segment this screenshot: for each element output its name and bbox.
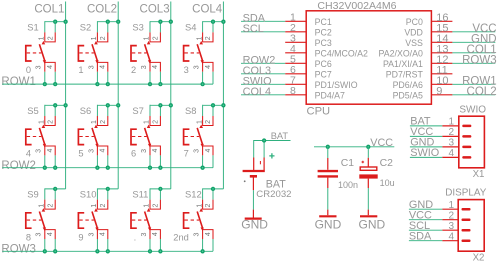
wire S6 top connection <box>97 104 118 106</box>
svg-text:GND: GND <box>241 218 268 232</box>
IC CPU CH32V002A4M6 <box>306 0 431 118</box>
switch S12 key "2nd" <box>173 187 223 254</box>
wire S9 to ROW3 <box>44 239 46 251</box>
connector X2 pin 2 VCC <box>442 210 470 221</box>
junction S2 pin 3 on ROW1 <box>95 82 99 86</box>
junction S4 pin 2 to COL4 <box>211 20 215 24</box>
junction S1 pin 4 on ROW1 <box>53 82 57 86</box>
CPU pin 3 PC3 <box>285 32 332 48</box>
svg-text:2: 2 <box>47 36 54 40</box>
svg-text:S1: S1 <box>27 22 38 33</box>
svg-text:DISPLAY: DISPLAY <box>445 187 486 198</box>
S1 pins 1,2 <box>45 32 55 42</box>
S6 contact arm <box>92 128 98 145</box>
wire S2 top connection <box>97 21 118 23</box>
svg-text:4: 4 <box>152 65 159 69</box>
S8 actuator button <box>184 129 190 144</box>
svg-text:1: 1 <box>39 36 46 40</box>
S1 actuator dashed link <box>27 52 42 54</box>
S9 actuator dashed link <box>27 219 42 221</box>
junction S1 pin 3 on ROW1 <box>43 82 47 86</box>
svg-text:ROW3: ROW3 <box>462 55 497 67</box>
connector X1 pin 1 BAT <box>442 117 471 128</box>
wire S7 to ROW2 <box>149 155 151 167</box>
CPU pin 8 PD4/A7 <box>285 85 345 101</box>
svg-text:PD6/A6: PD6/A6 <box>393 80 423 90</box>
capacitor C2 10u polarized <box>359 147 394 188</box>
junction S5 pin 4 on ROW2 <box>53 166 57 170</box>
junction COL1 column tap <box>63 20 67 24</box>
svg-text:CH32V002A4M6: CH32V002A4M6 <box>317 0 396 12</box>
S7 actuator dashed link <box>132 136 147 138</box>
S9 contact arm <box>39 212 45 229</box>
svg-text:3: 3 <box>141 149 148 153</box>
S2 actuator dashed link <box>79 52 94 54</box>
S10 contact arm <box>92 212 98 229</box>
S3 pins 3,4 <box>150 62 160 71</box>
wire net ROW1 from CPU pin 10 <box>452 76 496 88</box>
wire COL1 vertical <box>65 2 67 189</box>
svg-text:1: 1 <box>91 120 98 124</box>
junction S7 pin 3 on ROW2 <box>148 166 152 170</box>
connector X2 pin 3 SCL <box>442 221 470 232</box>
svg-text:2nd: 2nd <box>173 232 189 242</box>
wire S8 top connection <box>203 104 224 106</box>
S10 actuator button <box>78 213 84 228</box>
wire net COL3 to CPU pin 6 <box>241 65 285 77</box>
svg-text:4: 4 <box>152 149 159 153</box>
svg-text:S12: S12 <box>185 189 202 200</box>
junction S6 pin 4 on ROW2 <box>106 166 110 170</box>
svg-text:S7: S7 <box>132 105 143 116</box>
svg-text:4: 4 <box>205 65 212 69</box>
svg-text:PC1: PC1 <box>315 17 332 27</box>
junction S2 pin 2 to COL2 <box>106 20 110 24</box>
svg-text:6: 6 <box>131 149 136 159</box>
switch S5 key "4" <box>26 103 68 170</box>
svg-text:3: 3 <box>36 65 43 69</box>
svg-text:S8: S8 <box>185 105 196 116</box>
wire ROW2 horizontal <box>2 167 213 169</box>
CPU pin 5 PC6 <box>285 53 332 69</box>
S1 pins 3,4 <box>45 62 55 71</box>
wire net COL1 from CPU pin 13 <box>452 44 496 56</box>
svg-text:C2: C2 <box>380 158 394 169</box>
ground GND (C1) <box>315 210 342 232</box>
S6 actuator button <box>78 129 84 144</box>
junction COL4 column tap <box>221 20 225 24</box>
svg-text:2: 2 <box>153 120 160 124</box>
CPU pin 16 PC0 <box>406 12 453 27</box>
wire net SCL to X2 pin 3 <box>409 220 442 232</box>
switch S10 key "9" <box>78 187 118 254</box>
S12 actuator button <box>184 213 190 228</box>
switch S2 key "1" <box>78 20 120 87</box>
svg-text:9: 9 <box>78 232 83 242</box>
junction S11 pin 2 to COL3 <box>158 187 162 191</box>
junction COL1 column tap <box>63 103 67 107</box>
junction S9 pin 2 to COL1 <box>53 187 57 191</box>
S11 actuator dashed link <box>132 219 147 221</box>
S4 actuator dashed link <box>185 52 200 54</box>
svg-text:4: 4 <box>47 232 54 236</box>
junction COL2 column tap <box>116 20 120 24</box>
CPU pin 6 PC7 <box>285 64 332 80</box>
wire net COL2 from CPU pin 9 <box>452 86 496 98</box>
junction S7 pin 4 on ROW2 <box>158 166 162 170</box>
svg-text:2: 2 <box>131 65 136 75</box>
junction S1 pin 2 to COL1 <box>53 20 57 24</box>
S2 pins 1,2 <box>97 32 107 42</box>
CPU pin 7 PD1/SWIO <box>285 74 358 90</box>
svg-text:GND: GND <box>359 218 386 232</box>
connector X1 pin 2 VCC <box>442 127 471 138</box>
net label COL2 <box>87 4 117 16</box>
wire S6 to ROW2 <box>96 155 98 167</box>
connector X2 pin 4 SDA <box>442 231 470 242</box>
svg-text:3: 3 <box>449 138 455 149</box>
S3 contact arm <box>145 44 151 61</box>
junction VCC C1 <box>326 145 330 149</box>
svg-text:S10: S10 <box>80 189 97 200</box>
wire S9 top connection <box>45 188 66 190</box>
svg-text:4: 4 <box>152 232 159 236</box>
svg-text:4: 4 <box>449 231 455 242</box>
S7 actuator button <box>131 129 137 144</box>
wire net SCL to CPU pin 2 <box>241 23 285 35</box>
svg-text:VSS: VSS <box>405 38 423 48</box>
junction S12 pin 2 to COL4 <box>211 187 215 191</box>
svg-text:8: 8 <box>26 232 31 242</box>
switch S3 key "2" <box>131 20 173 87</box>
svg-text:4: 4 <box>449 148 455 159</box>
wire COL3 vertical <box>170 2 172 189</box>
junction S11 pin 4 on ROW3 <box>158 249 162 253</box>
svg-text:2: 2 <box>153 204 160 208</box>
junction COL3 column tap <box>169 103 173 107</box>
junction S3 pin 2 to COL3 <box>158 20 162 24</box>
net label ROW1 <box>1 76 36 88</box>
S11 actuator button <box>131 213 137 228</box>
wire ROW1 horizontal <box>2 83 213 85</box>
svg-text:1: 1 <box>449 200 455 211</box>
net label VCC <box>370 137 393 149</box>
wire net GND to X2 pin 1 <box>409 199 442 211</box>
junction S7 pin 2 to COL3 <box>158 103 162 107</box>
svg-text:0: 0 <box>26 65 31 75</box>
ground GND (C2) <box>359 210 386 232</box>
junction S3 pin 3 on ROW1 <box>148 82 152 86</box>
wire S4 to ROW1 <box>202 72 204 84</box>
S12 actuator dashed link <box>185 219 200 221</box>
junction S6 pin 2 to COL2 <box>106 103 110 107</box>
junction S9 pin 3 on ROW3 <box>43 249 47 253</box>
svg-text:COL4: COL4 <box>192 4 223 16</box>
S12 pins 1,2 <box>203 200 213 210</box>
junction S5 pin 2 to COL1 <box>53 103 57 107</box>
svg-text:3: 3 <box>449 221 455 232</box>
junction S4 pin 3 on ROW1 <box>200 82 204 86</box>
wire S10 top connection <box>97 188 118 190</box>
wire S3 top connection <box>150 21 171 23</box>
junction S8 pin 2 to COL4 <box>211 103 215 107</box>
S6 pins 1,2 <box>97 116 107 126</box>
S10 pins 3,4 <box>97 230 107 239</box>
net label ROW2 <box>1 160 36 172</box>
S8 pins 3,4 <box>203 146 213 155</box>
S6 pins 3,4 <box>97 146 107 155</box>
connector X2 DISPLAY header <box>445 187 486 263</box>
svg-text:S6: S6 <box>80 105 91 116</box>
svg-text:1: 1 <box>78 65 83 75</box>
S2 contact arm <box>92 44 98 61</box>
CPU pin 2 PC2 <box>285 22 332 38</box>
svg-text:2: 2 <box>100 204 107 208</box>
S3 pins 1,2 <box>150 32 160 42</box>
svg-text:S11: S11 <box>132 189 148 200</box>
svg-text:CPU: CPU <box>307 106 331 118</box>
svg-text:1: 1 <box>91 204 98 208</box>
net label COL3 <box>140 4 170 16</box>
wire S5 to ROW2 <box>44 155 46 167</box>
svg-text:PC3: PC3 <box>315 38 332 48</box>
junction S11 pin 3 on ROW3 <box>148 249 152 253</box>
CPU pin 9 PD5/A5 <box>393 85 453 100</box>
S5 contact arm <box>39 128 45 145</box>
svg-text:ROW3: ROW3 <box>1 243 36 255</box>
switch S4 key "3" <box>184 20 226 87</box>
svg-text:3: 3 <box>184 65 189 75</box>
S7 pins 3,4 <box>150 146 160 155</box>
S12 pins 3,4 <box>203 230 213 239</box>
svg-text:VDD: VDD <box>404 27 423 37</box>
svg-text:4: 4 <box>100 65 107 69</box>
wire net ROW3 from CPU pin 12 <box>452 55 496 67</box>
wire net SDA to X2 pin 4 <box>409 231 442 243</box>
svg-text:4: 4 <box>205 232 212 236</box>
svg-text:2: 2 <box>449 127 455 138</box>
junction S9 pin 4 on ROW3 <box>53 249 57 253</box>
junction S10 pin 3 on ROW3 <box>95 249 99 253</box>
S11 contact arm <box>145 212 151 229</box>
wire S5 top connection <box>45 104 66 106</box>
switch S9 key "8" <box>26 187 66 254</box>
svg-text:PD1/SWIO: PD1/SWIO <box>315 80 358 90</box>
svg-text:100n: 100n <box>338 180 358 190</box>
svg-text:2: 2 <box>100 120 107 124</box>
S9 actuator button <box>26 213 32 228</box>
wire C1 to ground <box>327 188 329 210</box>
svg-text:4: 4 <box>47 149 54 153</box>
junction S5 pin 3 on ROW2 <box>43 166 47 170</box>
connector X1 pin 3 GND <box>442 138 471 149</box>
S7 contact arm <box>145 128 151 145</box>
wire ROW3 horizontal <box>2 250 213 252</box>
svg-text:1: 1 <box>196 204 203 208</box>
svg-text:4: 4 <box>47 65 54 69</box>
svg-text:10u: 10u <box>380 178 395 188</box>
S8 contact arm <box>197 128 203 145</box>
ground GND (battery) <box>241 210 268 232</box>
svg-text:1: 1 <box>144 120 151 124</box>
S1 contact arm <box>39 44 45 61</box>
junction S6 pin 3 on ROW2 <box>95 166 99 170</box>
svg-text:GND: GND <box>315 218 342 232</box>
junction COL3 column tap <box>169 20 173 24</box>
CPU pin 1 PC1 <box>285 11 332 27</box>
wire battery minus to ground <box>252 190 254 209</box>
svg-text:3: 3 <box>36 233 43 237</box>
svg-text:1: 1 <box>39 120 46 124</box>
svg-text:S5: S5 <box>27 105 38 116</box>
wire S7 top connection <box>150 104 171 106</box>
svg-text:8: 8 <box>290 85 296 97</box>
svg-text:BAT: BAT <box>271 131 289 141</box>
svg-text:S3: S3 <box>132 22 143 33</box>
svg-text:X2: X2 <box>473 253 485 264</box>
S12 contact arm <box>197 212 203 229</box>
svg-text:1: 1 <box>144 36 151 40</box>
switch S1 key "0" <box>26 20 68 87</box>
svg-text:3: 3 <box>36 149 43 153</box>
svg-text:4: 4 <box>26 149 31 159</box>
wire S12 top connection <box>203 188 224 190</box>
switch S7 key "6" <box>131 103 173 170</box>
S2 actuator button <box>78 46 84 61</box>
svg-text:SDA: SDA <box>409 231 432 243</box>
svg-text:COL3: COL3 <box>140 4 170 16</box>
S3 actuator dashed link <box>132 52 147 54</box>
S10 pins 1,2 <box>97 200 107 210</box>
S5 pins 3,4 <box>45 146 55 155</box>
wire net BAT to X1 pin 1 <box>410 116 442 128</box>
svg-text:ROW2: ROW2 <box>1 160 36 172</box>
svg-text:COL2: COL2 <box>87 4 117 16</box>
svg-text:1: 1 <box>196 36 203 40</box>
svg-text:PC6: PC6 <box>315 59 332 69</box>
svg-text:3: 3 <box>194 65 201 69</box>
connector X2 pin 1 GND <box>442 200 470 211</box>
S5 actuator button <box>26 129 32 144</box>
S7 pins 1,2 <box>150 116 160 126</box>
svg-text:4: 4 <box>100 149 107 153</box>
wire net SWIO to X1 pin 4 <box>410 147 442 159</box>
svg-text:PA1/XI/A1: PA1/XI/A1 <box>383 59 423 69</box>
svg-text:2: 2 <box>205 120 212 124</box>
svg-text:PA2/XO/A0: PA2/XO/A0 <box>379 48 423 58</box>
svg-text:1: 1 <box>449 117 455 128</box>
wire net SDA to CPU pin 1 <box>241 13 285 25</box>
svg-text:2: 2 <box>205 204 212 208</box>
svg-text:2: 2 <box>205 36 212 40</box>
junction S10 pin 2 to COL2 <box>106 187 110 191</box>
svg-text:4: 4 <box>205 149 212 153</box>
S4 pins 3,4 <box>203 62 213 71</box>
svg-text:2: 2 <box>47 204 54 208</box>
svg-text:C1: C1 <box>341 158 355 169</box>
svg-text:1: 1 <box>91 36 98 40</box>
S11 pins 3,4 <box>150 230 160 239</box>
S11 pins 1,2 <box>150 200 160 210</box>
svg-text:1: 1 <box>144 204 151 208</box>
junction BAT <box>262 138 266 142</box>
CPU pin 12 PA1/XI/A1 <box>383 54 452 69</box>
connector X1 SWIO header <box>459 104 486 179</box>
wire C2 to ground <box>367 188 369 210</box>
junction S3 pin 4 on ROW1 <box>158 82 162 86</box>
wire net COL4 to CPU pin 8 <box>241 86 285 98</box>
svg-text:5: 5 <box>78 149 83 159</box>
svg-text:SCL: SCL <box>243 23 264 35</box>
svg-text:4: 4 <box>100 232 107 236</box>
svg-text:1: 1 <box>39 204 46 208</box>
svg-text:2: 2 <box>100 36 107 40</box>
wire S4 top connection <box>203 21 224 23</box>
CPU pin 14 VSS <box>405 33 452 48</box>
CPU pin 11 PD7/RST <box>386 64 453 79</box>
wire BAT <box>254 140 291 158</box>
svg-text:CR2032: CR2032 <box>256 189 291 200</box>
junction VCC C2 <box>366 145 370 149</box>
svg-text:3: 3 <box>88 233 95 237</box>
junction COL4 column tap <box>221 103 225 107</box>
wire net ROW2 to CPU pin 5 <box>241 55 285 67</box>
net label ROW3 <box>1 243 36 255</box>
svg-text:S2: S2 <box>80 22 91 33</box>
net label BAT <box>271 131 289 141</box>
wire S12 to ROW3 <box>202 239 204 251</box>
wire S3 to ROW1 <box>149 72 151 84</box>
svg-text:X1: X1 <box>473 169 485 180</box>
S6 actuator dashed link <box>79 136 94 138</box>
S8 actuator dashed link <box>185 136 200 138</box>
svg-text:PD5/A5: PD5/A5 <box>393 90 423 100</box>
svg-text:SWIO: SWIO <box>459 104 486 115</box>
S5 actuator dashed link <box>27 136 42 138</box>
CPU pin 15 VDD <box>404 22 452 37</box>
CPU pin 10 PD6/A6 <box>393 75 453 90</box>
wire S8 to ROW2 <box>202 155 204 167</box>
junction S12 pin 3 on ROW3 <box>200 249 204 253</box>
svg-text:PC2: PC2 <box>315 27 332 37</box>
svg-text:PC0: PC0 <box>406 17 423 27</box>
wire COL4 vertical <box>222 2 224 189</box>
svg-text:3: 3 <box>141 233 148 237</box>
S10 actuator dashed link <box>79 219 94 221</box>
S2 pins 3,4 <box>97 62 107 71</box>
wire net GND from CPU pin 14 <box>452 34 496 46</box>
net label COL1 <box>34 4 64 16</box>
battery BAT CR2032 <box>243 153 292 200</box>
switch S6 key "5" <box>78 103 120 170</box>
wire VCC rail <box>314 146 394 148</box>
S4 contact arm <box>197 44 203 61</box>
S1 actuator button <box>26 46 32 61</box>
svg-text:1: 1 <box>196 120 203 124</box>
wire S11 top connection <box>150 188 171 190</box>
svg-text:3: 3 <box>141 65 148 69</box>
svg-text:COL4: COL4 <box>243 86 271 98</box>
net label COL4 <box>192 4 223 16</box>
svg-text:2: 2 <box>449 210 455 221</box>
wire COL2 vertical <box>117 2 119 189</box>
svg-text:SWIO: SWIO <box>410 147 439 159</box>
svg-text:PD7/RST: PD7/RST <box>386 69 424 79</box>
svg-text:S9: S9 <box>27 189 38 200</box>
svg-text:7: 7 <box>184 149 189 159</box>
svg-text:3: 3 <box>194 233 201 237</box>
wire S2 to ROW1 <box>96 72 98 84</box>
